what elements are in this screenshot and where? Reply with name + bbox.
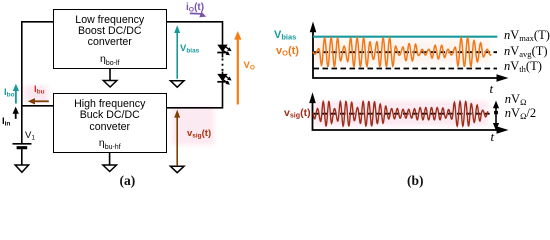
label v_O(t) (b) (276, 46, 299, 57)
wire: LED2 to bottom rail (166, 82, 222, 108)
ground under v_sig arrow (170, 166, 184, 173)
pink halo behind v_sig arrow and label (a) (172, 107, 214, 145)
label I_bo (4, 88, 15, 99)
converter block: low-frequency boost (53, 9, 167, 69)
caption (b) (407, 173, 424, 189)
wire: boost box right to LED string top (166, 22, 223, 45)
label v_sig(t) (a) (187, 129, 211, 140)
LED D1 (217, 45, 231, 56)
label nV_omega/2 (505, 107, 536, 120)
label V_O (244, 61, 255, 72)
ground stem under buck box (109, 153, 111, 165)
wire: dotted end to LED2 (222, 72, 224, 75)
label t upper axis (490, 82, 494, 95)
arrow V_bias (174, 25, 180, 79)
label V_bias (a) (180, 44, 199, 55)
wire: source column to buck box (22, 105, 54, 107)
axis lower plot (309, 92, 508, 133)
label t lower axis (491, 130, 495, 143)
label nV_max(T) (504, 29, 550, 42)
caption (a) (120, 173, 136, 189)
arrow I_in (13, 107, 19, 119)
waveform v_O(t) (313, 38, 491, 67)
pink halo behind lower waveform (314, 101, 488, 126)
label i_O(t) (186, 3, 204, 14)
double arrow nV_omega (493, 101, 499, 131)
arrow I_bu (28, 98, 49, 104)
V_bias level line (313, 36, 497, 38)
battery V1 (13, 144, 32, 165)
label V_1 (25, 131, 35, 142)
arrow v_sig (174, 110, 180, 166)
label V_bias (b) (274, 30, 296, 41)
ground under battery (15, 165, 28, 172)
label I_in (2, 117, 10, 128)
arrow V_O (234, 31, 241, 105)
LED D2 (217, 74, 231, 85)
label v_sig(t) (b) (284, 108, 311, 120)
dashed nV_th line (314, 68, 498, 70)
waveform v_sig(t) (313, 101, 488, 126)
converter block: high-frequency buck (53, 93, 167, 153)
ground under boost box (103, 81, 117, 88)
label I_bu (34, 85, 45, 96)
wire: boost box left to source column (22, 22, 54, 143)
dashed nV_avg line (314, 51, 498, 53)
ground under buck box (103, 165, 117, 172)
pink halo behind I_bu arrow (24, 86, 48, 102)
axis upper plot (310, 22, 509, 82)
arrow I_bo (13, 84, 19, 104)
label nV_avg(T) (504, 45, 548, 58)
arrow i_O(t) (190, 12, 206, 18)
dashed center line lower plot (313, 113, 490, 115)
label nV_omega (505, 93, 527, 106)
peach halo behind upper waveform (314, 40, 490, 64)
ground under V_bias arrow (170, 81, 184, 88)
wire: LED string middle segment (222, 53, 224, 58)
ground stem under boost box (109, 68, 111, 80)
label nV_th(T) (504, 60, 542, 73)
dotted wire between LEDs (222, 59, 224, 73)
